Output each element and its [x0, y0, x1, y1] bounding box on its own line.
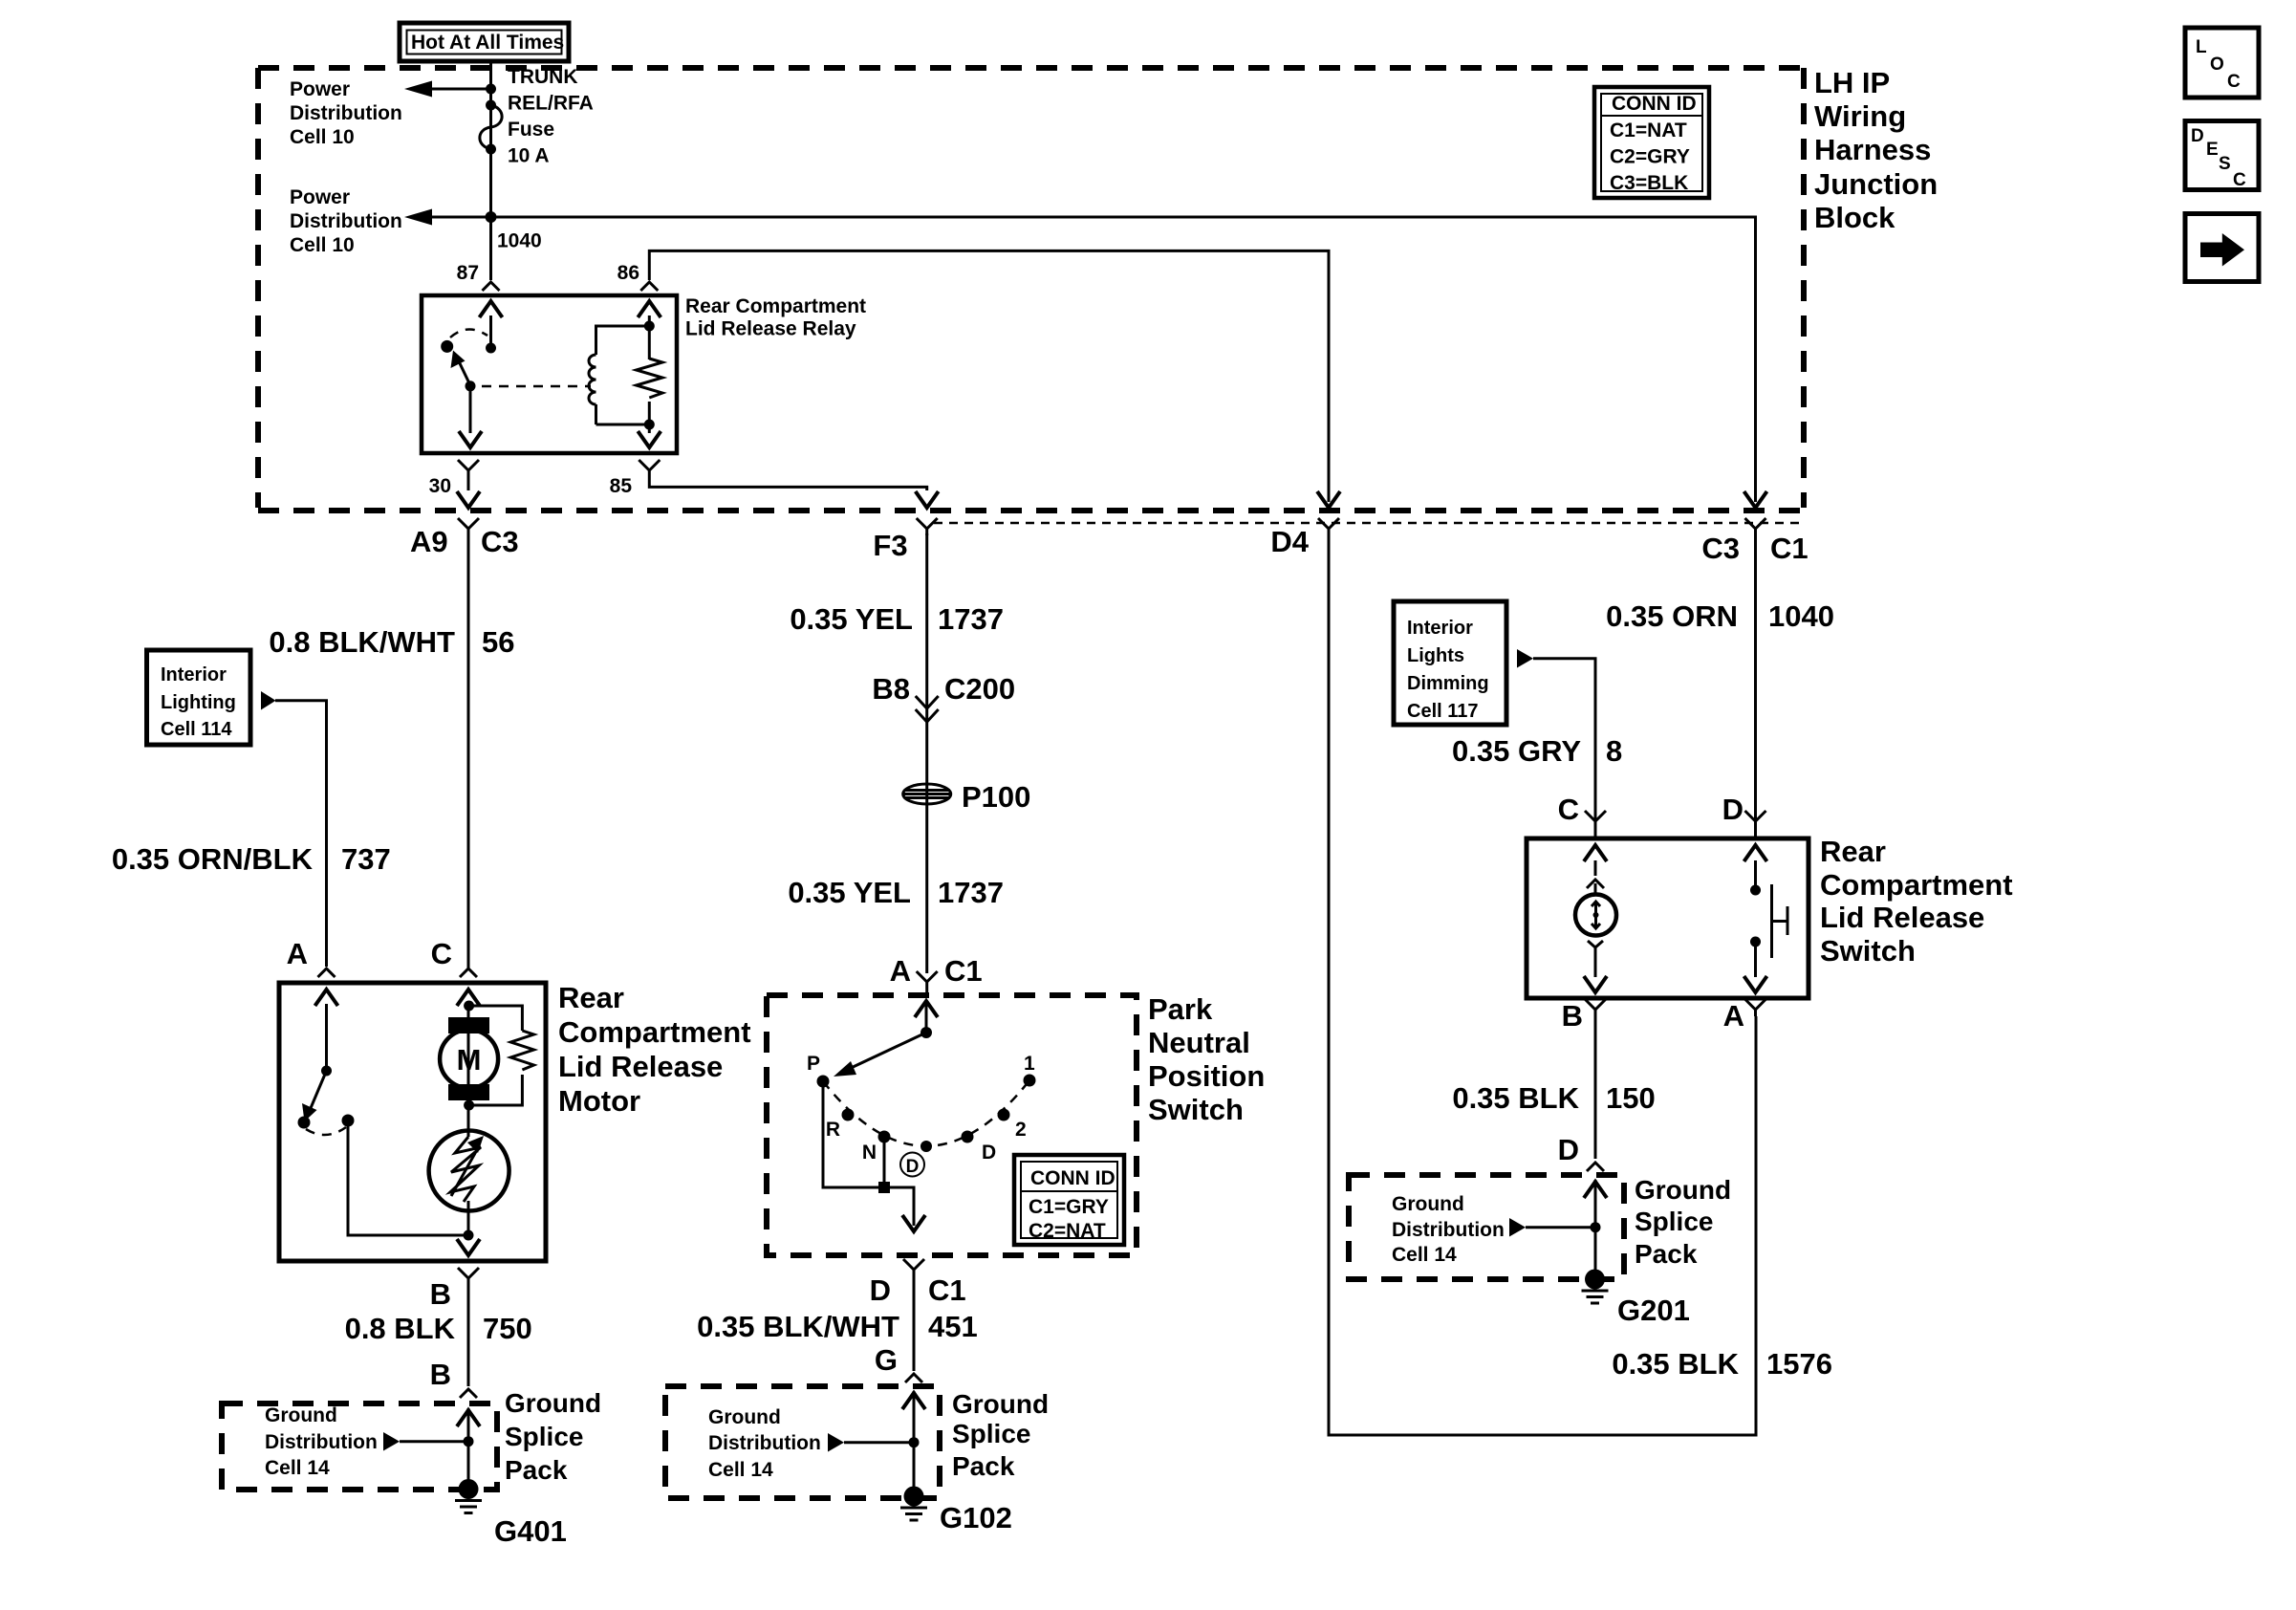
svg-text:CONN ID: CONN ID	[1612, 93, 1697, 115]
svg-text:Distribution: Distribution	[290, 102, 402, 124]
svg-text:C2=GRY: C2=GRY	[1610, 146, 1690, 168]
svg-text:Motor: Motor	[558, 1084, 640, 1118]
svg-text:C: C	[431, 937, 452, 970]
svg-text:A9: A9	[410, 525, 448, 558]
svg-text:Neutral: Neutral	[1148, 1026, 1250, 1059]
svg-text:Splice: Splice	[505, 1422, 583, 1451]
svg-text:Lid Release: Lid Release	[558, 1050, 723, 1083]
svg-text:C: C	[2233, 170, 2246, 190]
svg-text:REL/RFA: REL/RFA	[508, 93, 594, 115]
svg-text:Cell 14: Cell 14	[265, 1457, 330, 1479]
svg-text:Pack: Pack	[505, 1455, 568, 1485]
svg-text:Switch: Switch	[1820, 934, 1916, 968]
svg-text:G201: G201	[1617, 1294, 1690, 1327]
svg-text:Dimming: Dimming	[1407, 673, 1489, 694]
svg-text:A: A	[1723, 999, 1744, 1033]
svg-text:0.35 YEL: 0.35 YEL	[790, 602, 913, 636]
svg-text:Cell 10: Cell 10	[290, 126, 355, 148]
svg-text:D: D	[906, 1157, 920, 1177]
svg-text:Position: Position	[1148, 1059, 1265, 1093]
svg-text:150: 150	[1606, 1081, 1656, 1115]
svg-text:Splice: Splice	[1635, 1207, 1713, 1236]
svg-text:0.35 ORN/BLK: 0.35 ORN/BLK	[112, 842, 314, 876]
svg-text:Cell 14: Cell 14	[708, 1459, 773, 1481]
svg-text:Fuse: Fuse	[508, 119, 554, 141]
svg-text:F3: F3	[873, 529, 907, 562]
svg-text:S: S	[2219, 154, 2231, 174]
svg-text:C: C	[2227, 72, 2241, 92]
svg-text:Ground: Ground	[505, 1388, 601, 1418]
svg-text:Switch: Switch	[1148, 1093, 1244, 1126]
svg-text:Lid Release Relay: Lid Release Relay	[685, 318, 856, 340]
svg-text:C1=NAT: C1=NAT	[1610, 120, 1687, 141]
svg-text:Hot At All Times: Hot At All Times	[411, 32, 564, 54]
svg-text:Power: Power	[290, 186, 350, 208]
svg-text:Cell 114: Cell 114	[161, 719, 232, 740]
svg-text:Splice: Splice	[952, 1419, 1030, 1448]
svg-text:D: D	[1722, 793, 1744, 826]
svg-text:C1: C1	[928, 1273, 966, 1307]
svg-text:Distribution: Distribution	[265, 1431, 378, 1453]
svg-text:750: 750	[483, 1312, 532, 1345]
svg-text:Ground: Ground	[952, 1389, 1049, 1419]
svg-text:Park: Park	[1148, 992, 1213, 1026]
svg-text:C3: C3	[1701, 532, 1740, 565]
svg-text:1: 1	[1024, 1053, 1035, 1075]
svg-text:Wiring: Wiring	[1814, 99, 1906, 133]
svg-text:Pack: Pack	[1635, 1239, 1698, 1269]
svg-text:737: 737	[341, 842, 391, 876]
svg-text:R: R	[826, 1119, 840, 1141]
svg-text:C2=NAT: C2=NAT	[1029, 1220, 1106, 1242]
svg-text:0.35 BLK: 0.35 BLK	[1452, 1081, 1579, 1115]
svg-text:Pack: Pack	[952, 1451, 1015, 1481]
svg-text:Harness: Harness	[1814, 133, 1931, 166]
svg-text:Compartment: Compartment	[558, 1015, 751, 1049]
svg-text:86: 86	[617, 262, 639, 284]
svg-text:0.8 BLK/WHT: 0.8 BLK/WHT	[269, 625, 455, 659]
svg-text:E: E	[2206, 140, 2219, 160]
svg-text:Block: Block	[1814, 201, 1895, 234]
svg-text:1040: 1040	[1768, 599, 1834, 633]
svg-text:Lighting: Lighting	[161, 692, 236, 713]
svg-text:P: P	[807, 1053, 820, 1075]
svg-text:M: M	[457, 1043, 482, 1077]
svg-text:Rear: Rear	[1820, 835, 1886, 868]
svg-text:0.35 YEL: 0.35 YEL	[788, 876, 911, 909]
svg-text:G401: G401	[494, 1514, 567, 1548]
svg-text:B8: B8	[872, 672, 910, 706]
svg-text:G: G	[875, 1343, 898, 1377]
svg-text:10 A: 10 A	[508, 145, 550, 167]
svg-text:2: 2	[1015, 1119, 1027, 1141]
svg-text:C3=BLK: C3=BLK	[1610, 172, 1688, 194]
svg-text:Rear: Rear	[558, 981, 624, 1014]
svg-text:Distribution: Distribution	[290, 210, 402, 232]
svg-text:30: 30	[429, 475, 451, 497]
svg-text:1737: 1737	[938, 876, 1004, 909]
svg-text:C200: C200	[944, 672, 1015, 706]
svg-text:Rear Compartment: Rear Compartment	[685, 295, 866, 317]
svg-text:C3: C3	[481, 525, 519, 558]
svg-text:C: C	[1558, 793, 1579, 826]
svg-text:Junction: Junction	[1814, 167, 1938, 201]
svg-text:Cell 14: Cell 14	[1392, 1244, 1457, 1266]
svg-text:Cell 10: Cell 10	[290, 234, 355, 256]
svg-text:TRUNK: TRUNK	[508, 66, 578, 88]
svg-text:Interior: Interior	[1407, 618, 1473, 639]
svg-text:8: 8	[1606, 734, 1622, 768]
svg-text:56: 56	[482, 625, 514, 659]
svg-text:0.35 GRY: 0.35 GRY	[1452, 734, 1581, 768]
svg-text:B: B	[430, 1277, 451, 1311]
svg-text:D: D	[1558, 1133, 1579, 1166]
svg-text:Ground: Ground	[1635, 1175, 1731, 1205]
svg-text:Distribution: Distribution	[708, 1432, 821, 1454]
svg-text:1576: 1576	[1766, 1347, 1832, 1381]
svg-text:C1=GRY: C1=GRY	[1029, 1196, 1109, 1218]
svg-text:O: O	[2210, 54, 2224, 75]
svg-text:B: B	[430, 1358, 451, 1391]
svg-text:P100: P100	[962, 780, 1030, 814]
svg-text:CONN ID: CONN ID	[1030, 1167, 1116, 1189]
svg-text:1040: 1040	[497, 230, 542, 252]
svg-text:D: D	[982, 1142, 996, 1164]
svg-text:0.35 ORN: 0.35 ORN	[1606, 599, 1738, 633]
svg-text:G102: G102	[940, 1501, 1012, 1534]
svg-text:87: 87	[457, 262, 479, 284]
svg-text:C1: C1	[944, 954, 983, 988]
svg-text:A: A	[890, 954, 911, 988]
svg-text:Interior: Interior	[161, 664, 227, 685]
svg-text:0.8 BLK: 0.8 BLK	[345, 1312, 456, 1345]
svg-text:Cell 117: Cell 117	[1407, 701, 1479, 722]
svg-text:0.35 BLK/WHT: 0.35 BLK/WHT	[697, 1310, 899, 1343]
svg-text:Power: Power	[290, 78, 350, 100]
svg-text:Compartment: Compartment	[1820, 868, 2013, 902]
svg-text:1737: 1737	[938, 602, 1004, 636]
svg-text:85: 85	[610, 475, 633, 497]
svg-text:Lid Release: Lid Release	[1820, 901, 1984, 934]
svg-text:C1: C1	[1770, 532, 1809, 565]
svg-text:N: N	[862, 1142, 877, 1164]
svg-text:Distribution: Distribution	[1392, 1219, 1505, 1241]
svg-text:L: L	[2196, 37, 2207, 57]
svg-text:LH IP: LH IP	[1814, 66, 1890, 99]
svg-text:B: B	[1562, 999, 1583, 1033]
svg-text:0.35 BLK: 0.35 BLK	[1612, 1347, 1739, 1381]
svg-text:Ground: Ground	[708, 1406, 781, 1428]
svg-text:Lights: Lights	[1407, 645, 1464, 666]
svg-text:D: D	[2191, 126, 2204, 146]
svg-text:D4: D4	[1270, 525, 1309, 558]
svg-text:Ground: Ground	[265, 1404, 337, 1426]
svg-text:451: 451	[928, 1310, 978, 1343]
svg-text:D: D	[870, 1273, 891, 1307]
svg-text:Ground: Ground	[1392, 1193, 1464, 1215]
svg-text:A: A	[287, 937, 308, 970]
